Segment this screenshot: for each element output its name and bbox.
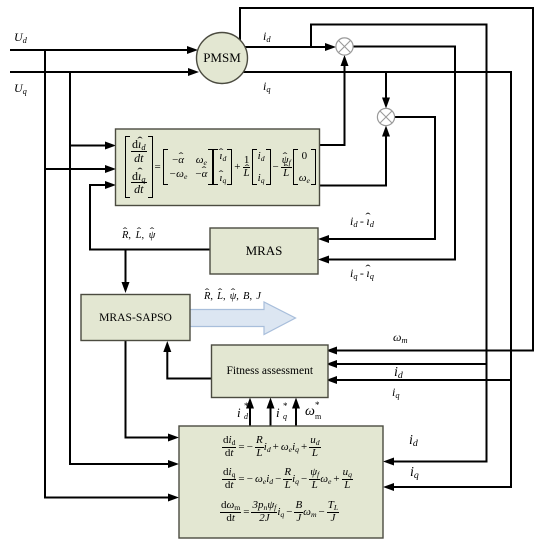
label i_q_star superscript	[283, 402, 288, 411]
text PMSM	[196, 33, 248, 83]
wire U_d to estimator input 2	[45, 168, 106, 170]
label U_d	[14, 31, 27, 43]
arrowhead i_q into ref model right	[383, 483, 394, 491]
block Fitness assessment	[212, 345, 329, 398]
equation ref model row 1	[222, 434, 321, 460]
wire MRAS output R L psi	[90, 185, 210, 250]
label U_q	[14, 82, 27, 94]
label i_d_star subscript	[244, 413, 248, 421]
wire omega_m feedback from PMSM top	[240, 8, 533, 351]
label R L psi B J estimates	[204, 292, 261, 303]
text MRAS	[210, 228, 318, 274]
text Fitness assessment	[212, 345, 329, 398]
label iq minus iq_hat	[350, 267, 374, 279]
arrowhead estimator input 3	[105, 181, 116, 189]
arrowhead i_d into junction 1	[325, 43, 336, 51]
arrowhead i_d_star into fitness bottom	[246, 398, 254, 409]
block MRAS	[210, 228, 318, 274]
wire branch down to MRAS-SAPSO top	[125, 250, 127, 286]
wire ref model to fitness omega_m_star	[295, 406, 297, 426]
arrowhead into MRAS input 2	[318, 256, 329, 264]
arrowhead estimator input 1	[105, 142, 116, 150]
label omega_m_star superscript	[315, 401, 320, 410]
wire ref model to fitness i_d_star	[249, 406, 251, 426]
arrowhead i_d into fitness	[326, 360, 337, 368]
wire MRAS-SAPSO output to reference model	[126, 341, 171, 438]
arrowhead U_q into PMSM	[188, 68, 199, 76]
label omega_m_star	[305, 405, 315, 419]
label i_d_star	[237, 406, 241, 419]
label omega_m_star subscript	[315, 413, 321, 421]
arrowhead U_d into PMSM	[187, 46, 198, 54]
wire estimator output i_d_hat to junction 1	[319, 63, 345, 145]
label i_q top	[263, 80, 271, 92]
PMSM circle	[197, 33, 248, 84]
block MRAS-SAPSO	[81, 295, 190, 341]
wire ref model to fitness i_q_star	[270, 406, 272, 426]
arrowhead estimator input 2	[105, 165, 116, 173]
arrowhead i_q_hat into junction 2	[382, 126, 390, 137]
arrowhead U_d into ref model	[168, 494, 179, 502]
block reference model (motor equations)	[179, 426, 383, 538]
wire estimator output i_q_hat to junction 2	[319, 133, 386, 186]
big light-blue output arrow of MRAS-SAPSO	[189, 302, 296, 335]
label i_q fitness right	[392, 386, 400, 398]
arrowhead U_q into ref model	[168, 460, 179, 468]
wire i_q branch down to junction 2	[385, 72, 387, 99]
label i_q ref model right	[410, 466, 419, 480]
wire i_d branch into fitness	[335, 363, 487, 365]
wire U_d input	[10, 49, 192, 51]
junction 2 X mark	[380, 111, 392, 123]
arrowhead i_q into junction 2	[382, 98, 390, 109]
junction 1 X mark	[338, 40, 350, 52]
arrowhead i_d_hat into junction 1	[341, 55, 349, 66]
wire U_d branch vertical	[45, 50, 170, 498]
wire i_d feedback branch	[311, 25, 487, 462]
label i_d top	[263, 30, 271, 42]
label omega_m	[393, 331, 408, 343]
wire fitness to MRAS-SAPSO bottom	[167, 350, 211, 379]
label i_q_star	[276, 406, 280, 419]
arrowhead omega_m_star into fitness bottom	[292, 398, 300, 409]
wire i_d from PMSM to junction 1	[245, 46, 329, 48]
equation adjustable model	[125, 136, 316, 198]
equation ref model row 3	[220, 499, 339, 525]
arrowhead omega_m into fitness	[326, 347, 337, 355]
wire U_q branch vertical	[70, 72, 170, 464]
wire junction 2 output to MRAS input 1	[327, 117, 435, 239]
label i_d ref model right	[409, 434, 418, 448]
junction 2 (i_q compare)	[377, 108, 394, 125]
arrowhead i_q into fitness	[326, 376, 337, 384]
label i_d_star superscript	[244, 402, 249, 411]
wire i_q branch into fitness	[335, 379, 511, 381]
label R L psi estimates	[122, 231, 155, 242]
arrowhead MRAS-SAPSO out into ref model	[168, 434, 179, 442]
arrowhead i_q_star into fitness bottom	[267, 398, 275, 409]
wire junction 1 output to MRAS input 2	[327, 47, 455, 260]
text MRAS-SAPSO	[81, 295, 190, 341]
wire U_q input	[10, 71, 193, 73]
arrowhead into MRAS-SAPSO top	[122, 282, 130, 293]
wire U_q to estimator input 1	[70, 145, 106, 147]
arrowhead into MRAS-SAPSO bottom	[163, 341, 171, 352]
equation ref model row 2	[222, 466, 353, 492]
label id minus id_hat	[350, 215, 374, 227]
label i_q_star subscript	[283, 413, 287, 421]
arrowhead into MRAS input 1	[318, 235, 329, 243]
block adjustable model (estimator equations)	[116, 129, 320, 206]
arrowhead i_d into ref model right	[383, 458, 394, 466]
label i_d fitness right	[394, 366, 403, 380]
wire i_q from PMSM	[243, 72, 511, 487]
junction 1 (i_d compare)	[336, 38, 353, 55]
